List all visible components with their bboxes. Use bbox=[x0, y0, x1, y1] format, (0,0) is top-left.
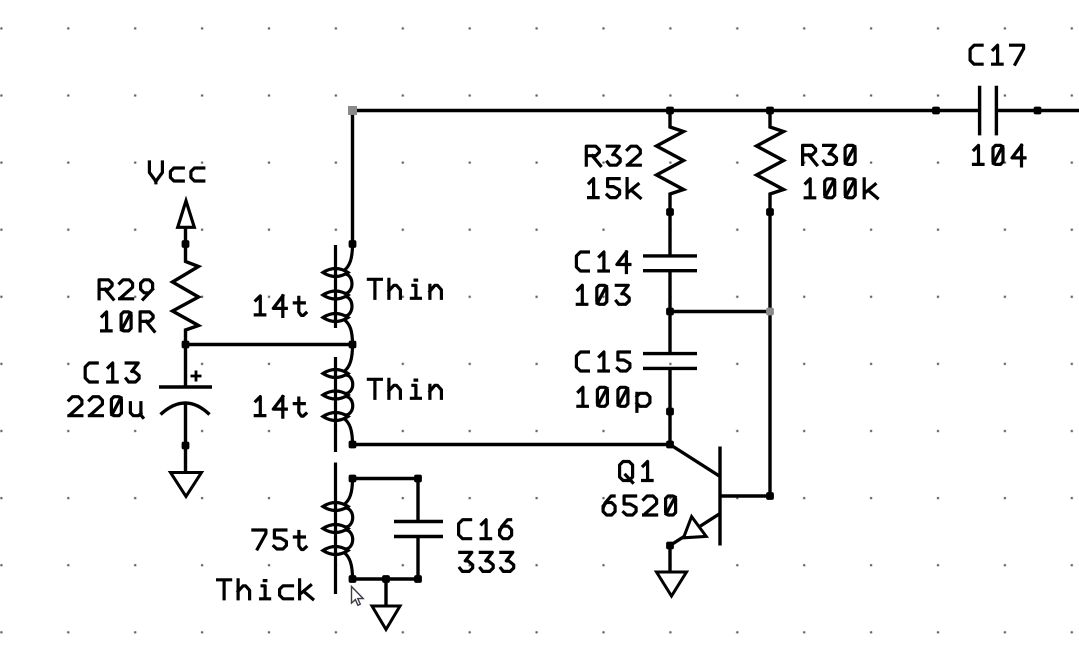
label C15 bbox=[576, 352, 630, 371]
wire winding3 top to C16 bbox=[353, 477, 419, 480]
node Q1 emitter junction bbox=[666, 542, 674, 550]
capacitor C16 stem bottom bbox=[416, 538, 419, 579]
node winding mid junction bbox=[349, 341, 357, 349]
transistor Q1 emitter arrow bbox=[684, 517, 707, 538]
node C16 bottom junction bbox=[414, 575, 422, 583]
capacitor C15 stem bottom bbox=[668, 370, 671, 445]
label 14t_2 bbox=[255, 397, 306, 418]
wire vertical from top corner down to winding 1 bbox=[351, 109, 354, 244]
mouse cursor bbox=[352, 587, 364, 606]
node top corner gray junction bbox=[348, 106, 357, 115]
transistor Q1 bar bbox=[718, 447, 721, 546]
node C14 bottom junction bbox=[666, 308, 674, 316]
label C14 bbox=[576, 252, 630, 273]
node winding2 bottom junction bbox=[349, 441, 357, 449]
ground under Q1 bbox=[657, 572, 687, 596]
wire mid horizontal R29/C13 junction to winding junction bbox=[186, 343, 353, 346]
capacitor C14 stem bottom bbox=[668, 272, 671, 312]
node gray junction on R30 line bbox=[766, 308, 774, 316]
transformer winding 3 (75t Thick) bbox=[323, 463, 353, 595]
wire top horizontal left segment bbox=[353, 109, 980, 112]
node R29 bottom junction bbox=[182, 341, 190, 349]
wire R30 vertical down to collector bbox=[768, 212, 771, 496]
power symbol Vcc arrow bbox=[178, 201, 195, 228]
node R32 bottom junction bbox=[666, 208, 674, 216]
label 100p bbox=[578, 387, 650, 411]
capacitor C15 plates bbox=[643, 354, 697, 369]
label 103 bbox=[577, 285, 629, 304]
node winding3 bottom junction bbox=[349, 575, 357, 583]
ground under C13 bbox=[171, 473, 202, 497]
capacitor C13 stem bottom bbox=[184, 404, 187, 473]
label 6520 bbox=[603, 496, 676, 515]
node top wire junction left of C17 bbox=[932, 107, 940, 115]
resistor R32 bbox=[657, 109, 684, 212]
node R30 top junction bbox=[766, 107, 774, 115]
label Thin_2 bbox=[368, 379, 441, 398]
capacitor C13 plus sign bbox=[191, 371, 202, 382]
label Thin_1 bbox=[368, 279, 441, 298]
node R30 bottom junction bbox=[766, 208, 774, 216]
transistor Q1 base diagonal bbox=[670, 445, 719, 477]
label C13 bbox=[85, 363, 139, 382]
wire winding2 bottom to Q1 base bbox=[353, 443, 671, 446]
label 75t bbox=[253, 530, 306, 550]
label 100k bbox=[805, 179, 877, 198]
node C15 bottom junction bbox=[666, 408, 674, 416]
capacitor C13 curved plate bbox=[161, 403, 210, 415]
node Vcc stem junction bbox=[182, 240, 190, 248]
capacitor C14 stem top bbox=[668, 212, 671, 255]
transformer winding 1 (14t Thin) bbox=[323, 244, 353, 345]
label Thick bbox=[218, 580, 313, 599]
transistor Q1 emitter bbox=[670, 514, 720, 546]
label R32 bbox=[586, 146, 640, 166]
capacitor C17 plates bbox=[980, 86, 997, 136]
ground under C16 bbox=[372, 606, 400, 630]
node Q1 base junction bbox=[666, 441, 674, 449]
resistor R30 bbox=[757, 109, 784, 212]
label 15k bbox=[589, 179, 641, 198]
capacitor C13 top plate bbox=[159, 385, 212, 388]
capacitor C15 stem top bbox=[668, 312, 671, 353]
node Q1 collector junction bbox=[766, 492, 774, 500]
label 220u bbox=[69, 397, 143, 418]
label Vcc bbox=[149, 162, 203, 183]
node C16 top junction bbox=[414, 475, 422, 483]
node C13 bottom junction bbox=[182, 442, 190, 450]
wire top horizontal right segment bbox=[996, 109, 1079, 112]
resistor R29 bbox=[173, 227, 199, 345]
label R30 bbox=[803, 145, 856, 165]
label 14t_1 bbox=[255, 296, 306, 317]
label C16 bbox=[459, 520, 512, 539]
wire Q1 emitter to ground bbox=[668, 546, 671, 573]
label 10R bbox=[102, 312, 155, 332]
wire winding3 bottom to C16 bbox=[353, 577, 419, 580]
label 333 bbox=[460, 552, 514, 571]
wire ground stub under transformer bbox=[384, 579, 387, 606]
node winding3 top junction bbox=[349, 475, 357, 483]
label Q1 bbox=[620, 462, 653, 483]
capacitor C16 stem top bbox=[416, 479, 419, 521]
transistor Q1 collector bbox=[720, 494, 770, 497]
node ground junction under transformer bbox=[382, 575, 390, 583]
node top wire junction right of C17 bbox=[1034, 107, 1042, 115]
capacitor C13 stem top bbox=[184, 345, 187, 388]
label C17 bbox=[970, 45, 1024, 64]
node R32 top junction bbox=[666, 107, 674, 115]
capacitor C16 plates bbox=[394, 522, 443, 537]
label R29 bbox=[99, 280, 153, 300]
wire C14/C15 junction across to R30 line bbox=[670, 310, 770, 313]
label 104 bbox=[974, 145, 1026, 166]
transformer winding 2 (14t Thin) bbox=[323, 345, 353, 452]
capacitor C14 plates bbox=[643, 256, 697, 271]
node winding1 top junction bbox=[349, 240, 357, 248]
